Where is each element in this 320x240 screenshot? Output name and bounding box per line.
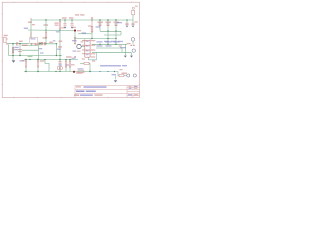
wire output row 1: [92, 43, 127, 45]
label value small: [120, 69, 123, 70]
ground C10: [132, 26, 135, 28]
capacitor C1: [17, 42, 18, 46]
label net on x38: [40, 52, 44, 53]
company text: [76, 91, 85, 93]
wire U2 out to ladder: [89, 52, 97, 60]
junction dots mid column: [39, 43, 40, 44]
wire net IN-: [22, 49, 38, 51]
label Q1: [72, 40, 77, 41]
junction dots top bus: [45, 19, 127, 20]
U1 pin labels: [30, 43, 32, 44]
wire R5 stubs: [25, 60, 27, 72]
label R1 ref: [22, 45, 28, 46]
wire mute net: [78, 33, 92, 35]
junction dots right rails: [91, 30, 116, 39]
wire C9 stub: [126, 20, 128, 23]
capacitor C5: [71, 24, 74, 25]
label net top96: [96, 26, 101, 27]
U2 right pin labels: [91, 40, 96, 58]
capacitor C9: [126, 23, 129, 24]
speaker jack J2 pin1: [131, 38, 135, 42]
wire C4 stub: [64, 20, 66, 23]
title text: [84, 86, 107, 87]
wire J2 pin1 stub: [132, 41, 134, 44]
wire speaker out run: [90, 72, 119, 76]
label net GNDA: [20, 60, 25, 61]
label C13: [57, 49, 61, 50]
junction dots feedback rail: [25, 59, 70, 60]
label R13: [88, 25, 91, 26]
resistor R12: [74, 38, 76, 44]
capacitor C10: [132, 23, 135, 24]
label R3 ref value: [55, 23, 59, 24]
wire J2 ground drop: [124, 44, 126, 55]
speaker jack J2 pin2: [132, 49, 135, 52]
ground GND2: [114, 80, 117, 82]
connector J1 input: [4, 37, 9, 44]
wire J2 pin2 drop: [131, 52, 133, 55]
wire Q1 to U2: [81, 46, 85, 48]
wire to GND bottom right: [115, 76, 117, 80]
label C8 ref: [114, 22, 120, 23]
junction node B (large): [74, 29, 76, 31]
fuse F1: [132, 7, 135, 15]
wire node B drop: [74, 31, 76, 39]
label J1: [4, 35, 8, 36]
wire C6 drop: [99, 20, 101, 31]
wire R13 top: [91, 20, 93, 27]
label R6 ref: [40, 60, 45, 61]
op-amp U2 LM3886 body: [82, 39, 90, 57]
label net mute: [82, 32, 87, 33]
wire C2 drop: [19, 44, 21, 56]
wire ground rail bottom: [24, 71, 90, 73]
label R9 ref: [78, 68, 84, 69]
wire R4 bottom: [45, 38, 47, 44]
label C4 ref: [62, 17, 67, 18]
label R2 ref: [28, 22, 32, 23]
label above node B: [73, 27, 77, 28]
label R5 value: [22, 60, 25, 61]
wire to GND1: [12, 56, 14, 61]
wire C5 stub: [71, 20, 73, 23]
date row texts: [74, 94, 79, 95]
label net IN: [24, 28, 28, 29]
capacitor C3: [42, 42, 46, 45]
wire R12 bottom stub: [74, 43, 76, 44]
wire vertical x38: [37, 46, 39, 60]
label ladder row1 nets: [97, 41, 120, 42]
ground C9: [126, 26, 129, 28]
power flag +VCC label: [75, 14, 79, 15]
ground J2a: [124, 56, 127, 58]
wire R6 stubs: [37, 60, 39, 72]
wire node C drop: [56, 30, 60, 60]
resistor R4: [45, 32, 47, 38]
wire output row 2: [96, 47, 122, 49]
wire J1 return: [8, 44, 10, 55]
label near feedback node: [76, 72, 83, 73]
junction node R3 bottom: [59, 29, 60, 30]
junction R13 rail: [91, 38, 92, 39]
resistor R9: [78, 71, 84, 73]
junction dots input line: [12, 29, 60, 56]
resistor R13 mute: [91, 27, 93, 33]
wire rail to inverting input: [28, 29, 75, 32]
label C11 and nets: [58, 64, 62, 65]
wire row2-row3 link: [121, 48, 123, 52]
wire staircase link: [45, 60, 49, 72]
resistor R5: [25, 61, 27, 67]
junction dots output run: [89, 44, 116, 73]
wire input from J1: [8, 43, 30, 45]
wire fuse to bus: [132, 15, 134, 23]
power flag -V: [74, 56, 76, 58]
rev cell texts: [129, 86, 132, 87]
label C1 value: [19, 41, 23, 42]
ground C5: [71, 27, 74, 29]
label U2 left pins: [73, 51, 77, 52]
capacitor C13: [58, 47, 61, 48]
resistor R8: [69, 61, 71, 67]
power port +25V at bus corner: [30, 18, 32, 19]
wire C12 to J3: [124, 75, 127, 77]
capacitor C4: [64, 24, 67, 25]
wire R4 top: [45, 20, 47, 32]
resistor R10 feedback: [84, 62, 89, 64]
label U1 ref: [31, 38, 36, 39]
wire rail mid right: [104, 34, 121, 36]
resistor R6: [37, 61, 39, 67]
label R14 ref: [127, 43, 131, 44]
wire ground rail input: [9, 55, 63, 57]
ground GND1: [12, 60, 16, 62]
label R7 R8 refs: [66, 56, 72, 57]
wire R8 stubs: [69, 60, 71, 72]
wire C7 drop: [107, 20, 109, 44]
label C3 ref: [43, 37, 48, 38]
resistor R3: [59, 22, 61, 29]
wire net IN+: [22, 45, 38, 47]
resistor R1: [12, 48, 14, 54]
label net out red: [92, 60, 95, 61]
wire +V supply bus: [31, 20, 133, 39]
jack J3 pin1: [127, 74, 130, 77]
power flag symbol at x92: [91, 17, 93, 20]
capacitor C7: [107, 24, 110, 25]
label net after R3: [56, 31, 60, 32]
capacitor C6: [99, 24, 102, 25]
wire output row 3: [92, 51, 131, 53]
wire C8 drop: [115, 20, 117, 44]
capacitor C12: [119, 74, 124, 76]
label C7 ref: [106, 22, 112, 23]
resistor R14: [130, 45, 132, 46]
wire R7 stubs: [65, 60, 67, 72]
label ladder row2 nets: [97, 45, 127, 48]
jack J3 pin2: [133, 74, 136, 77]
capacitor C11: [58, 62, 61, 63]
wire stub node C: [39, 44, 41, 46]
ground J2b: [130, 56, 133, 58]
label net bottom: [112, 74, 117, 75]
label U2 pin 4: [82, 58, 85, 59]
wire U1 output: [38, 43, 57, 45]
title block frame: [75, 85, 140, 97]
label R1 C2 values: [14, 47, 19, 48]
pin U1 V+ red: [30, 32, 32, 38]
U2 pin numbers: [86, 41, 89, 55]
label R4 ref: [44, 24, 49, 25]
op-amp U1 buffer: [30, 37, 38, 43]
label C10 value: [135, 21, 138, 22]
wire C11 stubs: [59, 60, 61, 72]
wire R10 left stub: [80, 63, 84, 65]
label Q1 pins: [81, 41, 84, 42]
label net U1 out: [39, 48, 42, 49]
capacitor C2: [18, 50, 22, 52]
title sheet label red: [76, 86, 81, 87]
ground C4: [64, 27, 67, 29]
transistor Q1: [77, 44, 81, 48]
label net speaker long: [100, 65, 121, 67]
resistor R7: [65, 61, 67, 67]
label node B: [77, 30, 81, 31]
label value row2: [119, 45, 122, 46]
wire rail V-: [74, 38, 116, 40]
wire rail V+ right: [100, 31, 121, 35]
wire feedback top rail: [24, 59, 78, 61]
label F1: [135, 6, 138, 7]
junction node feedback (large): [73, 71, 75, 73]
trimmer RV1: [58, 67, 63, 69]
wire R13 to rail: [91, 32, 93, 39]
label C12 ref: [122, 73, 128, 74]
junction dots ground rail: [25, 71, 60, 72]
label net supply: [117, 22, 122, 23]
label C6 ref: [98, 22, 104, 23]
wire R10 to bottom rail: [89, 64, 90, 72]
capacitor C8: [115, 24, 118, 25]
label net GND green: [28, 56, 33, 57]
wire U1 bottom pin: [31, 43, 33, 45]
label pin 8: [32, 24, 35, 25]
label row under rails: [104, 41, 109, 42]
label L1 ref: [39, 42, 44, 43]
wire R1 drop: [12, 44, 14, 56]
label C5 ref: [69, 17, 74, 18]
